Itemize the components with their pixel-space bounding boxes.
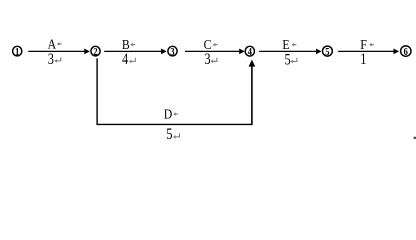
svg-text:4: 4 [248, 46, 252, 58]
svg-text:5: 5 [325, 46, 329, 58]
svg-text:1: 1 [15, 46, 19, 58]
svg-text:5: 5 [285, 51, 291, 69]
svg-text:5: 5 [166, 126, 172, 144]
svg-text:3: 3 [48, 51, 54, 69]
svg-text:D: D [164, 105, 172, 121]
svg-text:6: 6 [404, 46, 408, 58]
svg-text:A: A [48, 35, 57, 51]
svg-text:3: 3 [204, 51, 210, 69]
svg-text:3: 3 [170, 46, 174, 58]
svg-text:1: 1 [360, 51, 366, 69]
svg-text:B: B [122, 36, 130, 52]
svg-text:E: E [282, 36, 289, 52]
svg-text:4: 4 [122, 51, 128, 69]
svg-text:2: 2 [93, 46, 97, 58]
